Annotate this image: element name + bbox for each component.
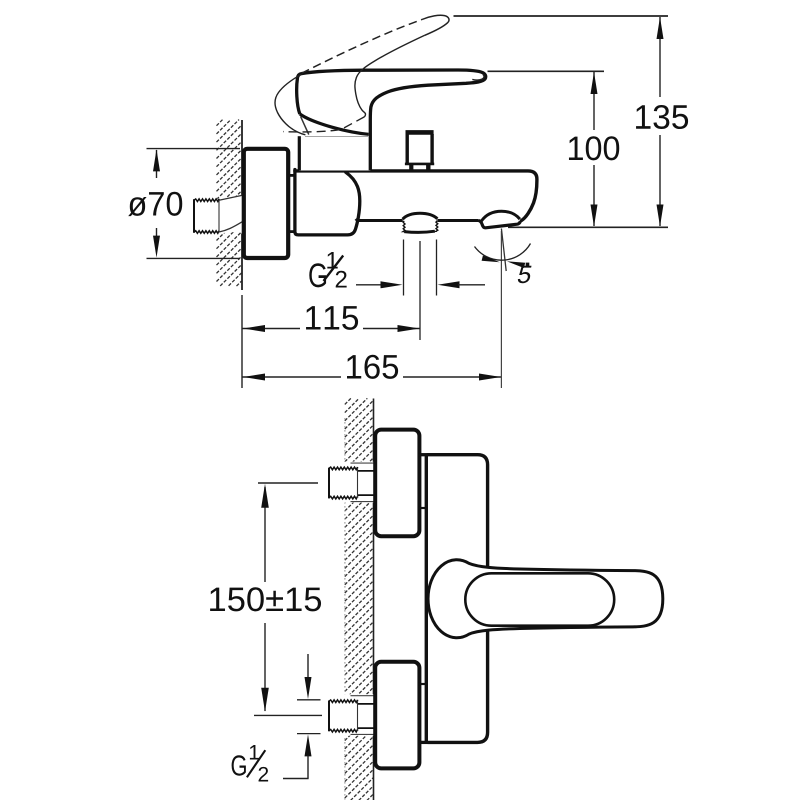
diverter knob [405, 133, 434, 164]
supply pipe behind wall [194, 195, 243, 234]
lever handle outline [297, 70, 486, 170]
body underside line [356, 219, 479, 221]
raised handle phantom: upper edge (dashed) [302, 20, 423, 74]
dimension 165 [243, 376, 342, 378]
G1/2 label (side view) [309, 252, 346, 288]
spout outlet foot [479, 221, 521, 228]
wall section hatching (plan view) [345, 398, 374, 800]
cartridge housing [299, 136, 370, 171]
G1/2 dimension (plan view) [297, 699, 321, 701]
wall face line (plan view) [373, 399, 375, 800]
lower escutcheon (plan view) [375, 662, 419, 769]
lower supply connector (plan view) [327, 694, 375, 736]
lever tip inner curl [472, 75, 484, 80]
dimension dia 70 [147, 148, 241, 150]
lever handle inner outline (plan view) [465, 573, 614, 625]
dimension 150 plus/minus 15 [258, 482, 318, 484]
dimension 135 [454, 15, 669, 17]
dimension 100 [488, 70, 605, 72]
G1/2 label (plan view) [232, 745, 269, 781]
body neck at flange [289, 174, 298, 177]
upper supply connector (plan view) [327, 462, 375, 503]
lever handle silhouette (rest position) [297, 70, 486, 170]
raised handle phantom: tip loop [422, 15, 449, 35]
handle skirt edge [301, 117, 309, 135]
wall flange escutcheon (side view) [244, 149, 288, 258]
raised handle phantom: base loop [275, 74, 305, 135]
G1/2 thread dimension (side view) [403, 240, 405, 296]
raised handle phantom: base bottom (dashed) [283, 117, 364, 132]
body connecting steps [418, 453, 428, 456]
wall back line (plan view) [344, 418, 346, 800]
raised handle phantom: lower edge [355, 35, 425, 117]
mixer body silhouette [295, 170, 537, 235]
spout collar curve [481, 211, 520, 221]
5 degree spout angle [500, 231, 502, 388]
mixer body (plan view) [426, 455, 487, 743]
body top edge and right end [295, 171, 537, 221]
wall section hatching (side view) [217, 119, 242, 286]
handle base bottom edge [300, 114, 369, 134]
lever handle outer outline (plan view) [428, 560, 663, 638]
shower outlet with G1/2 thread (side view) [403, 213, 438, 231]
dimension 115 [241, 295, 243, 388]
wall face line (side view) [241, 120, 243, 198]
valve body left and bottom outline [295, 170, 360, 235]
upper escutcheon (plan view) [375, 430, 419, 537]
